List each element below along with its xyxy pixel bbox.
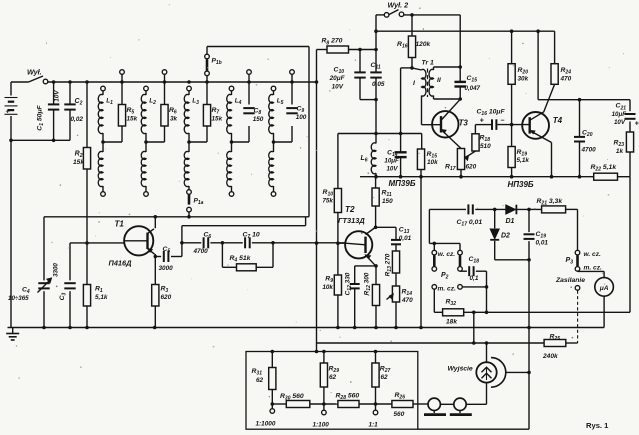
svg-text:15k: 15k <box>212 116 223 123</box>
svg-text:−: − <box>500 117 504 124</box>
svg-text:4700: 4700 <box>581 146 597 153</box>
svg-text:120k: 120k <box>416 41 431 48</box>
svg-text:62: 62 <box>256 377 264 384</box>
svg-text:100: 100 <box>296 114 307 121</box>
svg-text:Wył.: Wył. <box>27 68 42 77</box>
svg-text:1:1000: 1:1000 <box>256 421 276 428</box>
svg-text:1:100: 1:100 <box>313 421 330 428</box>
svg-text:Wyjście: Wyjście <box>448 365 473 372</box>
svg-text:620: 620 <box>466 163 477 170</box>
svg-text:НП39Б: НП39Б <box>508 180 534 189</box>
svg-text:20μF: 20μF <box>329 75 346 82</box>
svg-text:0,05: 0,05 <box>372 81 385 88</box>
svg-text:T1: T1 <box>115 220 125 229</box>
svg-text:10V: 10V <box>332 83 344 90</box>
svg-text:5,1k: 5,1k <box>95 294 108 301</box>
svg-text:D1: D1 <box>506 218 515 225</box>
svg-text:D2: D2 <box>501 233 510 240</box>
svg-text:470: 470 <box>560 76 572 83</box>
svg-text:m. cz.: m. cz. <box>584 265 602 272</box>
svg-text:10μF: 10μF <box>384 157 399 164</box>
svg-text:10÷365: 10÷365 <box>8 295 29 302</box>
svg-text:4700: 4700 <box>193 248 209 255</box>
svg-text:Wył. 2: Wył. 2 <box>388 1 409 10</box>
svg-text:3300: 3300 <box>53 263 60 277</box>
svg-text:w. cz.: w. cz. <box>584 251 602 258</box>
svg-text:15k: 15k <box>127 116 138 123</box>
svg-text:3000: 3000 <box>159 265 174 272</box>
svg-text:10V: 10V <box>54 90 61 102</box>
svg-text:0,01: 0,01 <box>399 235 412 242</box>
svg-text:Zasilanie: Zasilanie <box>555 277 585 284</box>
svg-text:+: + <box>6 107 11 116</box>
svg-text:0,02: 0,02 <box>71 116 84 123</box>
svg-text:560: 560 <box>394 411 405 418</box>
svg-text:5,1k: 5,1k <box>517 157 530 164</box>
svg-text:T2: T2 <box>345 205 355 214</box>
svg-text:10k: 10k <box>427 159 438 166</box>
svg-text:18k: 18k <box>446 318 457 325</box>
svg-text:II: II <box>437 77 441 84</box>
svg-text:μA: μA <box>599 285 609 292</box>
svg-text:I: I <box>413 80 415 87</box>
svg-text:62: 62 <box>329 374 337 381</box>
svg-text:30k: 30k <box>518 76 529 83</box>
svg-text:w. cz.: w. cz. <box>438 251 456 258</box>
svg-text:0,01: 0,01 <box>536 239 549 246</box>
svg-text:T4: T4 <box>553 116 563 125</box>
svg-text:10V: 10V <box>614 119 626 126</box>
svg-text:0,047: 0,047 <box>465 85 481 92</box>
svg-text:150: 150 <box>253 116 264 123</box>
svg-text:3k: 3k <box>170 116 178 123</box>
svg-text:T3: T3 <box>459 119 469 128</box>
svg-text:620: 620 <box>161 294 172 301</box>
svg-text:510: 510 <box>480 143 491 150</box>
svg-text:m. cz.: m. cz. <box>438 285 456 292</box>
svg-text:Tr 1: Tr 1 <box>422 59 435 66</box>
svg-text:П416Д: П416Д <box>109 259 133 268</box>
svg-text:10V: 10V <box>386 166 398 173</box>
svg-text:10k: 10k <box>322 284 333 291</box>
svg-text:+: + <box>635 120 639 127</box>
svg-text:Rys. 1: Rys. 1 <box>586 421 609 430</box>
svg-text:+: + <box>480 117 484 124</box>
svg-text:1:1: 1:1 <box>369 421 379 428</box>
svg-text:62: 62 <box>381 374 389 381</box>
svg-text:75k: 75k <box>322 197 333 204</box>
svg-text:10μF: 10μF <box>612 111 627 118</box>
svg-text:240k: 240k <box>542 353 558 360</box>
svg-text:МП39Б: МП39Б <box>389 179 416 188</box>
svg-text:1k: 1k <box>616 148 624 155</box>
svg-text:150: 150 <box>382 198 393 205</box>
svg-text:470: 470 <box>401 297 413 304</box>
svg-text:15k: 15k <box>73 159 84 166</box>
svg-text:ГТ313Д: ГТ313Д <box>338 216 365 225</box>
svg-text:0,1: 0,1 <box>470 275 479 282</box>
